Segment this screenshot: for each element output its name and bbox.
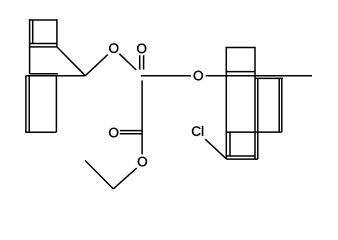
atom label O5 (ethyl ester oxygen) bbox=[138, 157, 147, 167]
atom label O1 (benzylic ester oxygen) bbox=[109, 43, 118, 53]
bond C1 to O3 (horizontal) bbox=[141, 75, 191, 77]
bond ethyl CH2 to CH3 (diagonal) bbox=[85, 160, 113, 189]
benzene ring 3 left edge continuing down to ring 5 bottom-left corner bbox=[225, 47, 227, 159]
atom label Cl (chlorine substituent) bbox=[192, 126, 203, 136]
benzene ring 4 top inner double-bond line bbox=[255, 77, 283, 79]
C1=O2 double bond line b bbox=[143, 55, 145, 69]
benzene ring 2 top edge extended to CH vertex bbox=[26, 75, 85, 77]
benzene ring 4 bottom edge shared as ring 5 top edge bbox=[226, 131, 281, 133]
benzene ring 2 top inner double-bond line bbox=[30, 73, 58, 75]
atom label O4 (lower carbonyl oxygen) bbox=[109, 128, 118, 138]
benzene ring 4 inner right double-bond line bbox=[278, 78, 280, 132]
benzene ring 3 (upper right square) top edge bbox=[226, 47, 255, 49]
benzene ring 1 inner double-bond horizontal line bbox=[30, 43, 57, 45]
bond CH vertex to ester oxygen O1 (diagonal) bbox=[85, 55, 108, 76]
benzene ring 2 bottom edge bbox=[25, 131, 56, 133]
benzene ring 5 inner bottom double-bond line bbox=[226, 155, 255, 157]
benzene ring 4 outer right edge bbox=[281, 78, 283, 132]
benzene ring 2 outer left edge bbox=[25, 76, 27, 133]
bond C1 to C2 vertical continuing to O5 bbox=[141, 80, 143, 154]
bond Cl to ring 5 (diagonal) bbox=[205, 139, 226, 159]
atom label O3 (aryl ester oxygen) bbox=[194, 71, 203, 81]
benzene ring 2 right edge bbox=[55, 76, 57, 133]
benzene ring 2 inner left double-bond line bbox=[28, 77, 30, 133]
C2=O4 double bond line a bbox=[120, 130, 142, 132]
benzene ring 3 inner double-bond bottom line bbox=[226, 71, 255, 73]
benzene ring 5 inner left double-bond line bbox=[229, 132, 231, 156]
benzene ring 1 right edge bbox=[56, 19, 58, 47]
benzene ring 1 left edge continuing down as bond toward ring 2 bbox=[29, 19, 31, 74]
bond O3 to ring 3 with ring 3 bottom edge, ring 4 top edge and terminal methyl bond bbox=[206, 75, 312, 77]
benzene ring 4 inner left double-bond line bbox=[257, 78, 259, 159]
bond ring 1 to CH vertex (diagonal) bbox=[57, 47, 85, 76]
benzene ring 1 (top-left square) top edge bbox=[29, 19, 58, 21]
C1=O2 double bond line a bbox=[139, 55, 141, 69]
atom label O2 (upper carbonyl oxygen) bbox=[137, 44, 146, 54]
benzene ring 3 right edge continuing down as ring 4 outer left edge and ring 5 right line bbox=[254, 47, 256, 159]
bond O1 to carbonyl carbon C1 (diagonal) bbox=[119, 54, 136, 70]
benzene ring 1 bottom edge bbox=[29, 46, 57, 48]
benzene ring 5 outer bottom edge bbox=[226, 158, 258, 160]
C2=O4 double bond line b bbox=[120, 133, 142, 135]
bond O5 to ethyl CH2 (diagonal) bbox=[113, 168, 136, 189]
benzene ring 1 inner double-bond vertical line bbox=[32, 20, 34, 44]
